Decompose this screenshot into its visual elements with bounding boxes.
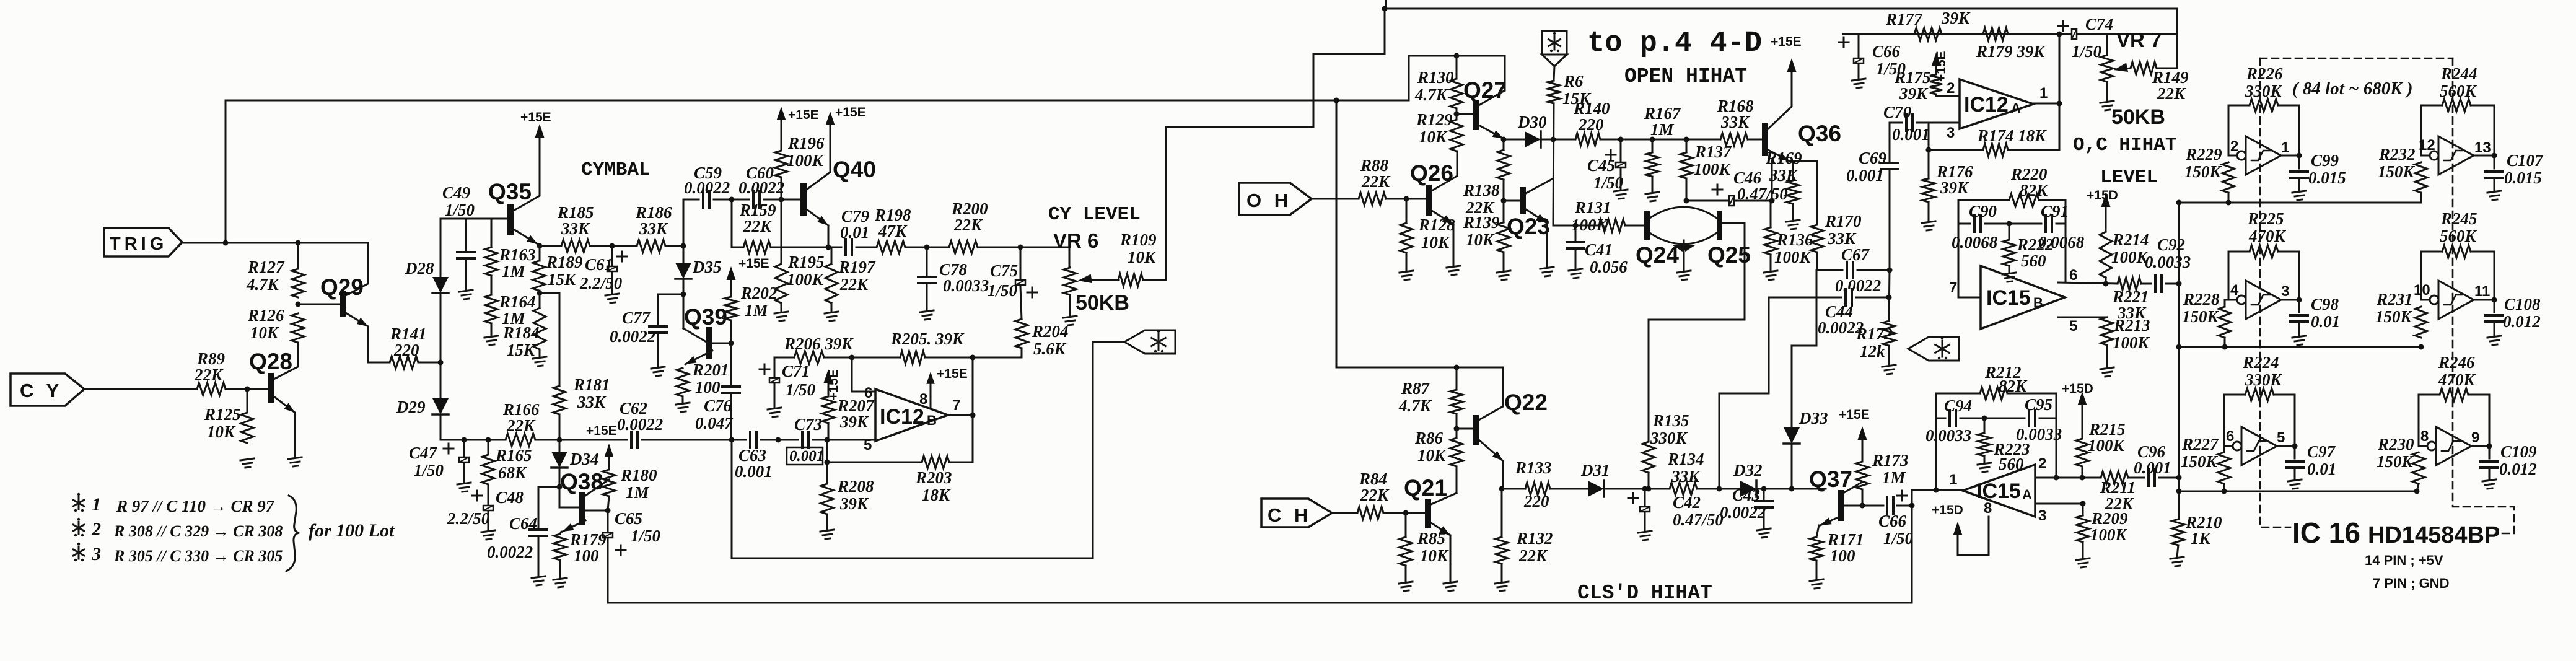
svg-text:OPEN HIHAT: OPEN HIHAT: [1624, 65, 1747, 88]
svg-text:150K: 150K: [2182, 307, 2220, 326]
wire inv6 output: [2471, 445, 2489, 447]
node C63 left / loop: [729, 437, 735, 443]
wire R165 to C48: [488, 484, 489, 504]
svg-text:R231: R231: [2376, 290, 2413, 309]
wire R202 to collector node: [730, 320, 732, 343]
svg-text:8: 8: [1984, 500, 1992, 517]
svg-text:22K: 22K: [839, 275, 869, 294]
ground Q26 emitter: [1447, 266, 1460, 275]
svg-text:50KB: 50KB: [1076, 291, 1129, 315]
ground R209: [2076, 558, 2090, 567]
label 50KB VR7: [2111, 105, 2165, 129]
svg-text:560K: 560K: [2440, 227, 2477, 245]
node pin7: [970, 413, 976, 418]
svg-text:+15D: +15D: [1932, 503, 1963, 517]
node riser row2: [2176, 344, 2182, 350]
node C44-R172: [1886, 295, 1892, 300]
capacitor C45: [1587, 150, 1626, 192]
resistor R221: [2112, 278, 2149, 322]
node inv4 out: [2492, 297, 2497, 303]
wire C108 to ground: [2494, 323, 2495, 336]
capacitor C59: [684, 164, 730, 208]
note line 3: [113, 547, 283, 565]
label to p.4 4-D: [1587, 27, 1762, 60]
capacitor C95: [2016, 395, 2062, 444]
ground C64: [532, 576, 545, 585]
svg-text:22K: 22K: [1518, 546, 1548, 565]
wire R205 to output node: [925, 357, 1022, 359]
wire pin1 stub: [2033, 103, 2059, 105]
svg-text:R86: R86: [1414, 429, 1444, 447]
capacitor C41: [1566, 240, 1628, 276]
resistor R130: [1414, 68, 1463, 108]
svg-text:82K: 82K: [2020, 181, 2049, 199]
node inv2 out: [2492, 153, 2497, 159]
resistor R201: [677, 361, 729, 396]
wire R84 to Q21: [1383, 512, 1425, 514]
wire C49 to ground: [465, 260, 467, 290]
wire C109 to ground: [2489, 470, 2491, 479]
resistor R166: [502, 400, 540, 446]
capacitor C63: [735, 431, 773, 481]
svg-text:1M: 1M: [1650, 120, 1675, 139]
node C67-C69: [1887, 268, 1893, 273]
svg-text:0.0033: 0.0033: [2145, 253, 2191, 271]
wire R125 stub: [247, 389, 248, 413]
potentiometer VR7: [2101, 55, 2113, 82]
svg-text:C49: C49: [442, 183, 471, 202]
svg-text:C69: C69: [1859, 149, 1887, 167]
svg-text:TRIG: TRIG: [110, 234, 167, 254]
wire inv2 loop: [2421, 105, 2442, 155]
wire R171 column: [1816, 525, 1819, 537]
wire Q23 emitter: [1546, 223, 1548, 267]
dashed line col A: [2260, 58, 2290, 527]
capacitor C42: [1628, 493, 1724, 529]
wire Q25 drain loop: [1649, 223, 1745, 442]
svg-text:R227: R227: [2181, 435, 2219, 453]
wire bus riser to pin1: [1912, 490, 1963, 603]
wire C98 stub: [2298, 300, 2300, 312]
resistor R227: [2181, 435, 2230, 484]
ground C78: [920, 310, 934, 320]
wire gate to C46: [1686, 200, 1727, 202]
svg-text:C97: C97: [2307, 442, 2336, 461]
svg-text:R125: R125: [204, 405, 241, 424]
svg-text:0.001: 0.001: [735, 462, 773, 481]
svg-text:D30: D30: [1517, 113, 1547, 131]
svg-text:5.6K: 5.6K: [1033, 339, 1067, 358]
svg-text:R213: R213: [2113, 316, 2150, 335]
node inv6 out: [2487, 444, 2492, 449]
label CLSD HIHAT: [1577, 582, 1712, 605]
transistor Q26: [1410, 160, 1457, 224]
resistor R189: [533, 253, 583, 291]
node Q40 emitter: [826, 245, 831, 250]
svg-text:C90: C90: [1969, 202, 1997, 221]
svg-text:0.056: 0.056: [1590, 258, 1628, 276]
wire Q28 emitter: [294, 413, 296, 457]
wire inv4 input: [2421, 299, 2429, 301]
node bus split: [1334, 98, 1339, 103]
node R231 bottom: [2419, 344, 2424, 350]
ground C47: [457, 483, 471, 492]
wire inv4 output: [2474, 299, 2494, 301]
capacitor C73: [794, 415, 822, 449]
svg-text:10K: 10K: [1419, 128, 1448, 146]
node R137 top: [1684, 137, 1689, 142]
svg-text:R189: R189: [546, 253, 583, 271]
capacitor C60: [738, 164, 784, 208]
svg-text:VR 7: VR 7: [2116, 28, 2162, 51]
ground C71: [768, 408, 781, 417]
wire D34 to Q38 base: [559, 468, 579, 507]
resistor R138: [1463, 150, 1510, 217]
wire D33 top link: [1792, 270, 1816, 427]
value C73 box: [787, 447, 824, 465]
capacitor C47: [409, 444, 470, 479]
svg-text:CYMBAL: CYMBAL: [581, 159, 651, 181]
node R203 left: [825, 460, 830, 465]
wire R223 stub: [1984, 418, 1986, 433]
ground C48: [481, 530, 495, 540]
svg-text:3: 3: [2038, 507, 2046, 524]
node R141 right: [438, 360, 444, 366]
wire R130 stub top: [1456, 56, 1458, 79]
wire R189 stub: [539, 246, 541, 261]
svg-text:1M: 1M: [745, 301, 769, 320]
resistor R163: [485, 245, 536, 281]
node output top: [970, 355, 976, 361]
svg-text:R196: R196: [787, 134, 825, 152]
node R229 bottom: [2226, 200, 2232, 206]
resistor R197: [825, 258, 876, 303]
wire C47 to ground: [463, 463, 465, 483]
svg-text:Q23: Q23: [1507, 214, 1550, 239]
node TRIG-bus junction: [223, 240, 229, 246]
svg-text:39K: 39K: [839, 413, 869, 431]
capacitor C74: [2058, 15, 2113, 61]
wire C44 staircase: [1719, 297, 1769, 489]
wire Q36 emitter node: [1789, 160, 1817, 162]
wire C90-C91 line: [1958, 223, 1970, 225]
wire loop right IC15B: [2065, 200, 2067, 282]
wire C78 to ground: [926, 285, 928, 310]
svg-text:C109: C109: [2500, 442, 2537, 461]
svg-text:C66: C66: [1872, 42, 1901, 61]
wire R171 to ground: [1816, 561, 1818, 579]
svg-text:B: B: [927, 413, 937, 428]
svg-text:1/50: 1/50: [1593, 173, 1624, 192]
wire R229 stub: [2228, 193, 2230, 203]
svg-text:C45: C45: [1587, 156, 1615, 175]
node R135 bottom: [1646, 486, 1652, 492]
label IC 16: [2292, 517, 2360, 549]
svg-text:6: 6: [2069, 267, 2077, 284]
resistor R222: [2003, 235, 2054, 270]
wire R227 stub: [2223, 484, 2225, 491]
wire inv2 output: [2474, 155, 2494, 157]
ground C43: [1757, 528, 1771, 538]
wire VR7 to ground: [2106, 82, 2108, 101]
wire C41 to ground: [1575, 250, 1577, 269]
capacitor C69: [1846, 149, 1899, 185]
wire Q39 base diag: [683, 328, 706, 342]
ground R172: [1882, 365, 1896, 374]
svg-text:1M: 1M: [502, 262, 526, 281]
ground R85: [1399, 582, 1413, 591]
svg-text:R228: R228: [2183, 290, 2220, 309]
wire R232 stub: [2420, 193, 2422, 203]
wire star tag loop: [732, 342, 1124, 558]
wire top line corner: [2157, 9, 2177, 68]
wire inv3 loop: [2228, 252, 2250, 300]
svg-text:1M: 1M: [1882, 468, 1906, 487]
ground C109: [2482, 479, 2496, 489]
wire R189-R184 link: [539, 291, 541, 308]
wire C42 stub: [1644, 489, 1646, 506]
svg-text:11: 11: [2474, 283, 2490, 300]
wire IC12A output column: [2059, 34, 2061, 150]
wire R133 to D31: [1550, 488, 1588, 490]
svg-text:R229: R229: [2185, 145, 2222, 164]
wire R185-R186: [590, 245, 637, 247]
resistor R213: [2101, 316, 2150, 352]
label O C HIHAT: [2073, 134, 2176, 156]
wire pin3 line: [2035, 503, 2083, 505]
transistor Q22: [1473, 390, 1548, 461]
transistor Q37: [1809, 466, 1862, 525]
label OPEN HIHAT: [1624, 65, 1747, 88]
power +15E IC12A: [1932, 51, 1949, 82]
wire R136 stub: [1770, 201, 1772, 227]
svg-text:2: 2: [1947, 80, 1955, 97]
power +15E Q37: [1839, 408, 1870, 462]
diode D32: [1733, 461, 1763, 497]
svg-text:150K: 150K: [2184, 162, 2222, 181]
svg-text:0.0033: 0.0033: [1925, 426, 1971, 445]
resistor R230: [2377, 435, 2425, 484]
svg-text:Q22: Q22: [1504, 390, 1548, 415]
wire C75 stub: [1020, 247, 1022, 279]
wire IC12B output: [948, 414, 973, 416]
svg-text:R206 39K: R206 39K: [784, 335, 854, 353]
ground C108: [2487, 336, 2501, 345]
wire inv1 loop: [2228, 105, 2250, 155]
wire pin5 line: [2058, 317, 2107, 318]
inverter IC16 8-9: [2420, 427, 2479, 465]
diode D30: [1517, 113, 1547, 147]
svg-text:22K: 22K: [2157, 84, 2186, 103]
svg-text:560K: 560K: [2440, 82, 2477, 100]
wire main riser: [2178, 203, 2180, 519]
node C46 right: [1769, 198, 1775, 204]
svg-text:+15E: +15E: [520, 110, 551, 125]
node C74 left: [2057, 32, 2062, 37]
wire R174 wire: [1929, 149, 1983, 151]
svg-text:220: 220: [1523, 492, 1549, 510]
wire output vertical: [972, 357, 974, 462]
svg-text:22K: 22K: [743, 217, 773, 235]
wire R87 stub: [1456, 367, 1458, 390]
resistor R149: [2131, 62, 2189, 103]
resistor R226: [2245, 64, 2283, 112]
node inv1 out: [2297, 153, 2302, 159]
node R223 top: [1982, 416, 1987, 421]
svg-text:R245: R245: [2440, 209, 2477, 228]
wire bottom bus: [608, 602, 1912, 604]
node Q29 base: [296, 302, 301, 307]
svg-text:10K: 10K: [207, 422, 236, 441]
resistor R128: [1400, 216, 1455, 253]
svg-text:2: 2: [2038, 455, 2046, 472]
node pin2 loop: [2054, 475, 2059, 481]
svg-text:9: 9: [2471, 429, 2479, 446]
wire Q22 base stub: [1457, 428, 1473, 430]
wire C70 line: [1890, 122, 1902, 124]
wire R139 to ground: [1503, 252, 1505, 271]
wire Q24-Q25 top arc: [1650, 207, 1717, 218]
svg-text:15K: 15K: [548, 270, 577, 289]
wire inv5 input: [2224, 445, 2232, 447]
svg-text:50KB: 50KB: [2111, 105, 2165, 129]
wire row2 input line: [2179, 346, 2421, 348]
svg-text:R205. 39K: R205. 39K: [890, 330, 965, 348]
wire R85 to ground: [1405, 566, 1407, 582]
node Q27 base: [1454, 112, 1460, 117]
wire C69-R172 vertical: [1889, 270, 1890, 321]
svg-text:C48: C48: [496, 488, 524, 507]
resistor R6: [1548, 72, 1592, 108]
node R174 left: [1926, 147, 1932, 153]
resistor R86: [1414, 429, 1463, 466]
wire R89 to Q28 base: [226, 388, 268, 390]
wire C66 to ground: [1858, 64, 1860, 79]
wire row1 input line: [2179, 202, 2421, 204]
wire inv4 loop right: [2471, 252, 2494, 300]
wire Q38 to C65 node: [585, 510, 608, 512]
transistor Q36: [1762, 66, 1841, 161]
svg-text:Q21: Q21: [1404, 475, 1447, 501]
resistor R185: [557, 203, 594, 252]
svg-text:+15E: +15E: [586, 424, 617, 438]
svg-text:22K: 22K: [1361, 172, 1391, 191]
svg-text:100K: 100K: [2113, 333, 2150, 352]
input tag TRIG: [104, 228, 182, 256]
op-amp IC12B: [875, 389, 948, 441]
svg-text:R174 18K: R174 18K: [1977, 126, 2047, 145]
wire pin5 to R203: [827, 440, 922, 462]
wire R109 to CY-level riser: [1143, 9, 1385, 280]
svg-text:1/50: 1/50: [988, 281, 1018, 300]
node R85 top: [1403, 510, 1409, 516]
diode D31: [1580, 461, 1610, 497]
svg-text:100K: 100K: [1694, 160, 1732, 178]
svg-text:R181: R181: [573, 375, 610, 394]
svg-text:7: 7: [952, 397, 960, 414]
capacitor C66 top: [1839, 37, 1906, 78]
wire inv2 loop right: [2471, 105, 2494, 155]
svg-text:470K: 470K: [2438, 370, 2476, 389]
label 7 PIN: [2373, 576, 2449, 591]
svg-text:R180: R180: [620, 466, 657, 484]
wire C46 to emitter riser: [1736, 200, 1772, 202]
wire VR6 to ground: [1069, 295, 1071, 316]
svg-text:C75: C75: [990, 261, 1018, 280]
pin 7 IC15B: [1949, 279, 1957, 296]
diode D34: [551, 450, 599, 468]
capacitor C44: [1818, 289, 1864, 337]
wire D30 to R140: [1541, 139, 1575, 141]
resistor R136: [1764, 227, 1813, 266]
svg-text:R87: R87: [1401, 379, 1430, 398]
wire C65 stub: [607, 510, 609, 532]
pin 8 IC15A: [1984, 500, 1992, 517]
wire bus down to CLSD: [1336, 100, 1338, 367]
node R209 top: [2080, 501, 2086, 507]
wire C48 to ground: [488, 512, 489, 530]
wire TRIG line: [182, 242, 368, 244]
wire C71 stub: [774, 357, 776, 377]
wire R172 to ground: [1888, 346, 1890, 365]
resistor R229: [2184, 145, 2235, 193]
wire C95 right: [2039, 418, 2056, 419]
svg-text:+15D: +15D: [2062, 382, 2093, 396]
label lot note: [2292, 79, 2413, 98]
svg-text:2: 2: [91, 519, 101, 540]
resistor R135: [1642, 411, 1689, 473]
svg-text:0.015: 0.015: [2504, 169, 2542, 187]
wire R212 loop top r: [2007, 393, 2056, 395]
resistor R109: [1118, 230, 1157, 286]
resistor R203: [915, 456, 952, 504]
wire pin6 drop: [852, 357, 874, 392]
svg-text:R173: R173: [1872, 451, 1909, 470]
svg-text:6: 6: [2226, 428, 2234, 445]
svg-text:for 100 Lot: for 100 Lot: [309, 520, 395, 541]
wire C44 right: [1856, 297, 1889, 299]
resistor R84: [1357, 470, 1390, 519]
wire R209 stub: [2082, 504, 2084, 515]
wire Q37 to C66: [1844, 505, 1883, 507]
input tag CY: [11, 374, 84, 406]
wire C69 to C67 node: [1889, 171, 1891, 270]
wire D31 to R134: [1604, 488, 1670, 490]
wire C44 line: [1769, 297, 1841, 299]
wire C107 to ground: [2494, 180, 2495, 191]
capacitor C90: [1952, 202, 1998, 252]
svg-text:R214: R214: [2112, 230, 2149, 249]
svg-text:1: 1: [92, 494, 101, 515]
svg-text:R128: R128: [1418, 216, 1455, 234]
svg-text:0.012: 0.012: [2499, 460, 2537, 478]
resistor R170: [1811, 212, 1862, 252]
svg-text:IC15: IC15: [1976, 479, 2021, 503]
wire C59-C60 base line: [683, 199, 699, 201]
power +15E Q35: [520, 110, 551, 138]
svg-text:8: 8: [2420, 428, 2429, 445]
wire C66 stub: [1858, 34, 1860, 57]
wire C99 stub: [2298, 155, 2300, 169]
wire R173 to emitter wire: [1862, 489, 1864, 506]
wire C99 to ground: [2298, 180, 2300, 191]
wire R181 to node: [559, 414, 561, 440]
svg-text:D34: D34: [569, 450, 599, 468]
capacitor C43: [1720, 486, 1773, 522]
svg-text:R133: R133: [1515, 458, 1552, 477]
wire R200 to VR6: [978, 247, 1069, 268]
svg-text:C98: C98: [2311, 295, 2339, 313]
